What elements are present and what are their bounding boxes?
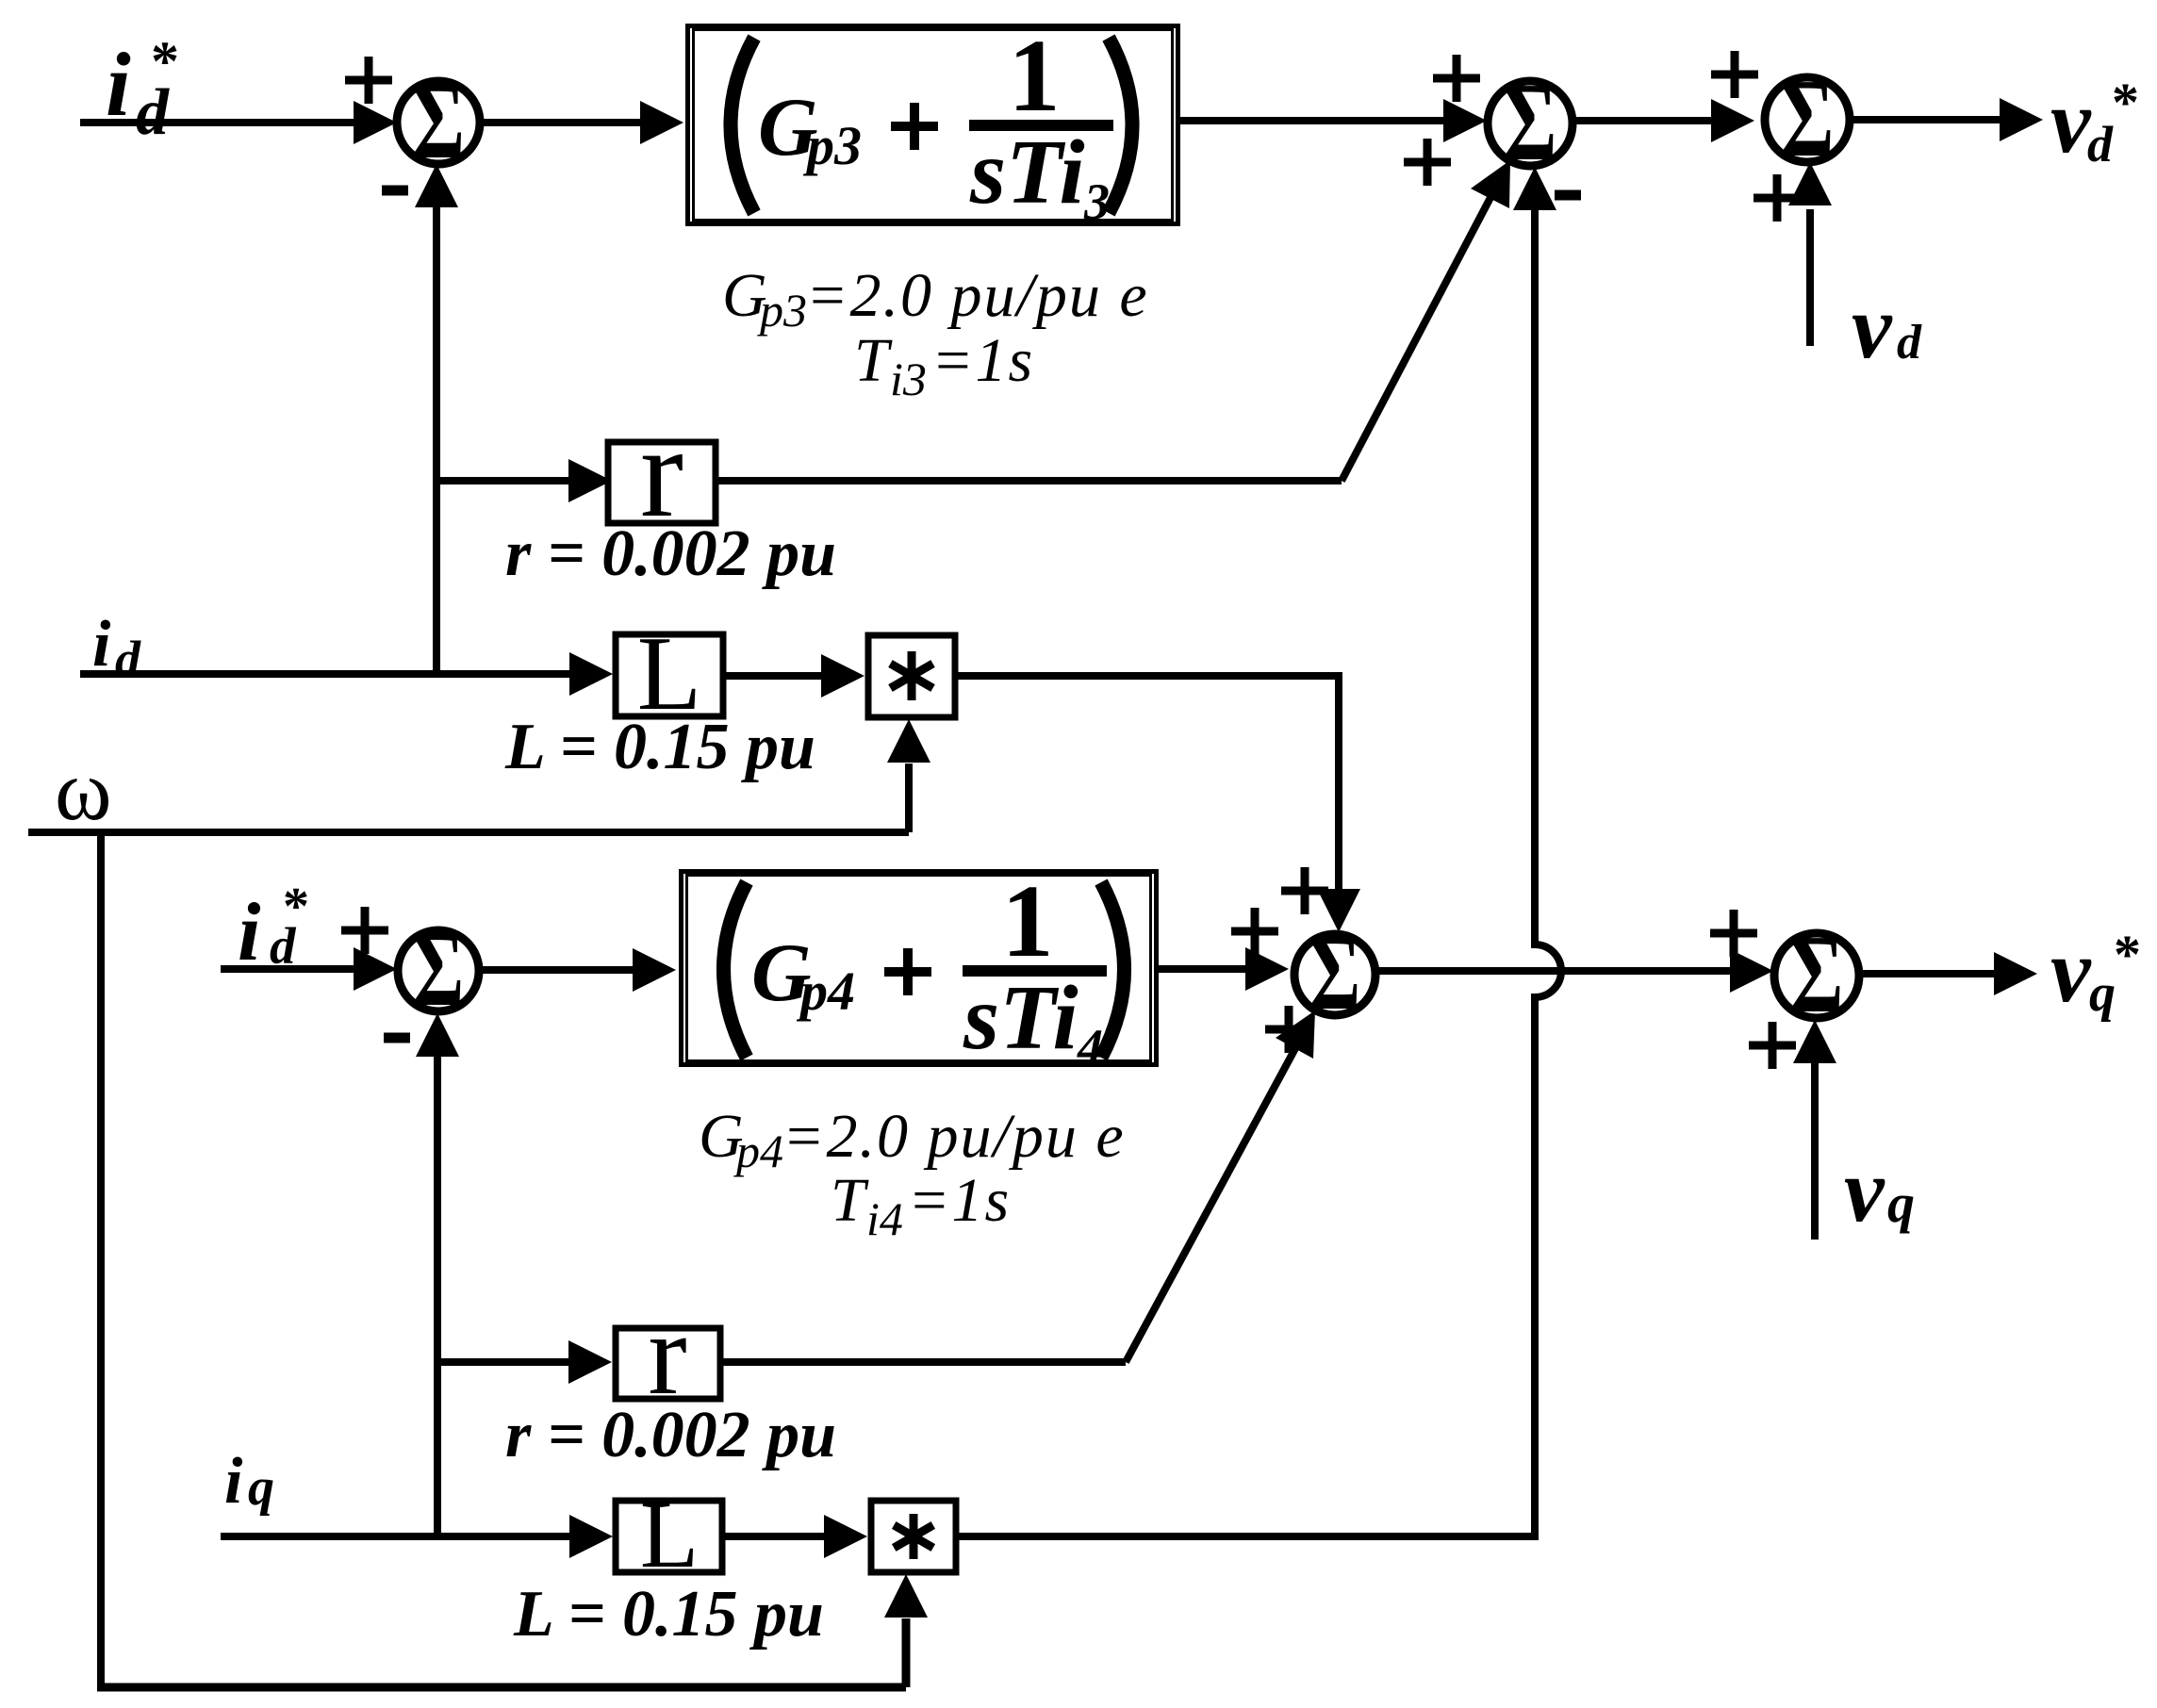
block G3 plus sign	[891, 103, 938, 150]
svg-text:L = 0.15 pu: L = 0.15 pu	[513, 1578, 824, 1651]
plus sign at SJ4 top input	[1281, 867, 1328, 914]
svg-text:=1s: =1s	[908, 1166, 1011, 1235]
plus sign at SJ2 diagonal input	[1404, 139, 1451, 186]
wire SJ3 to vd* output	[1850, 116, 2004, 123]
label Ti4=1s	[831, 1166, 1011, 1245]
block G3 left parenthesis	[731, 38, 754, 213]
node vd input label	[1852, 276, 1922, 377]
svg-text:d: d	[1897, 316, 1922, 370]
arrowhead into SJ1 left	[354, 101, 397, 144]
label Gp3=2.0 pu/pu e	[722, 261, 1149, 337]
wire omega riser to M2	[902, 1618, 911, 1687]
svg-text:v: v	[1844, 1140, 1885, 1240]
block G4 gain symbol Gp4	[751, 928, 855, 1022]
arrowhead into gain L1	[569, 652, 613, 696]
svg-text:v: v	[1852, 276, 1893, 377]
PI block G4 inner frame	[687, 876, 1151, 1061]
minus sign at SJ6 bottom input	[384, 1033, 410, 1043]
summing junction SJ2	[1488, 59, 1572, 185]
wire id input to gain L1	[80, 670, 574, 678]
summing junction SJ4	[1294, 912, 1375, 1032]
wire SJ2 to SJ3	[1572, 117, 1716, 124]
summing junction SJ1	[397, 60, 480, 182]
arrowhead vd into SJ3 bottom	[1788, 162, 1832, 205]
svg-text:i: i	[238, 887, 261, 978]
multiplier M1 asterisk	[890, 651, 932, 700]
svg-text:T: T	[854, 326, 893, 395]
arrowhead into multiplier M2	[824, 1515, 867, 1558]
arrowhead long vertical into SJ2 bottom	[1513, 167, 1556, 210]
svg-text:v: v	[2050, 920, 2092, 1021]
multiplier block M2	[871, 1501, 956, 1572]
gain block L1	[616, 634, 723, 716]
plus sign at SJ5 left input	[1710, 910, 1757, 957]
arrowhead into SJ5 left	[1730, 949, 1773, 993]
wire M2 output long vertical to SJ2 with hop	[956, 205, 1561, 1536]
svg-text:Σ: Σ	[412, 60, 465, 182]
plus sign at SJ4 left input	[1231, 908, 1278, 955]
svg-text:*: *	[283, 878, 309, 936]
wire feedback vertical into SJ6	[434, 1051, 441, 1536]
gain block r2	[616, 1328, 720, 1399]
arrowhead into block G4	[633, 948, 676, 992]
node iq feedback input label	[224, 1445, 274, 1518]
node id* reference input label (q-axis)	[238, 878, 309, 978]
block G4 denominator sTi4	[963, 967, 1103, 1076]
PI block G3 outer frame	[688, 26, 1178, 224]
wire diagonal r2 to SJ4	[1126, 1040, 1300, 1362]
wire diagonal r1 to SJ2	[1342, 190, 1494, 481]
arrowhead diagonal into SJ2	[1471, 160, 1510, 208]
block G3 right parenthesis	[1109, 38, 1132, 213]
wire omega riser to M1	[905, 764, 913, 832]
plus sign at SJ4 diagonal input	[1265, 1006, 1312, 1053]
svg-text:r = 0.002 pu: r = 0.002 pu	[505, 517, 836, 590]
wire omega bottom run	[97, 1683, 906, 1692]
PI block G3 inner frame	[694, 30, 1173, 221]
block G3 fraction bar	[969, 120, 1113, 131]
wire gain L1 to multiplier M1	[723, 672, 826, 680]
svg-text:1: 1	[1002, 863, 1054, 978]
svg-text:Σ: Σ	[1781, 56, 1835, 181]
summing junction SJ5	[1774, 911, 1859, 1037]
svg-text:r = 0.002 pu: r = 0.002 pu	[505, 1399, 836, 1471]
svg-text:L: L	[640, 1482, 699, 1588]
block G4 fraction bar	[963, 965, 1107, 977]
wire id* input to SJ6	[221, 965, 358, 973]
plus sign at SJ5 bottom input	[1749, 1022, 1796, 1069]
arrowhead into SJ6 left	[354, 947, 397, 991]
svg-text:i: i	[92, 608, 111, 681]
arrowhead diagonal into SJ4	[1276, 1010, 1315, 1059]
gain block r1	[608, 442, 716, 523]
label Ti3=1s	[854, 326, 1034, 405]
svg-text:L = 0.15 pu: L = 0.15 pu	[504, 711, 815, 783]
svg-text:p4: p4	[796, 961, 855, 1022]
svg-text:i: i	[224, 1445, 243, 1518]
block G4 plus sign	[884, 948, 931, 995]
wire block G4 to SJ4	[1159, 965, 1250, 973]
plus sign at SJ2 left input	[1433, 55, 1480, 102]
svg-text:ω: ω	[55, 742, 112, 838]
minus sign at SJ2 bottom input	[1555, 190, 1581, 201]
node id* reference input label (d-axis)	[106, 30, 179, 149]
block G3 gain symbol Gp3	[758, 82, 862, 176]
label Gp4=2.0 pu/pu e	[699, 1102, 1126, 1177]
block G4 left parenthesis	[724, 882, 748, 1058]
multiplier block M1	[868, 635, 955, 717]
svg-text:q: q	[2089, 964, 2116, 1023]
svg-text:p3: p3	[802, 115, 862, 176]
arrowhead omega into M1 bottom	[887, 719, 930, 763]
svg-text:4: 4	[1077, 1019, 1103, 1076]
wire block G3 to SJ2	[1180, 117, 1448, 124]
svg-text:q: q	[248, 1458, 274, 1517]
wire omega horizontal	[28, 829, 909, 836]
arrowhead into multiplier M1	[821, 654, 864, 698]
svg-text:v: v	[2050, 71, 2092, 172]
arrowhead into gain L2	[569, 1515, 613, 1558]
svg-text:=2.0 pu/pu e: =2.0 pu/pu e	[806, 261, 1149, 330]
svg-text:=1s: =1s	[931, 326, 1034, 395]
wire tee to gain r1	[436, 477, 569, 484]
node id feedback input label	[92, 608, 141, 687]
node vq* output label	[2050, 920, 2141, 1023]
svg-text:sTi: sTi	[963, 967, 1078, 1069]
wire gain r1 to corner	[716, 477, 1342, 484]
svg-text:Σ: Σ	[413, 909, 464, 1028]
svg-text:3: 3	[1083, 173, 1110, 230]
arrowhead M1 output into SJ4 top	[1317, 889, 1360, 932]
multiplier M2 asterisk	[894, 1514, 933, 1559]
plus sign at SJ3 left input	[1711, 51, 1758, 98]
wire vd input vertical	[1806, 209, 1814, 346]
wire tee to gain r2	[437, 1358, 573, 1366]
block G4 right parenthesis	[1101, 882, 1125, 1058]
PI block G4 outer frame	[682, 872, 1157, 1065]
arrowhead into SJ1 bottom	[415, 164, 458, 207]
svg-text:d: d	[115, 631, 141, 687]
arrowhead into gain r2	[568, 1340, 612, 1384]
wire gain L2 to multiplier M2	[722, 1533, 829, 1540]
wire SJ6 to block G4	[479, 966, 634, 974]
svg-text:*: *	[151, 30, 179, 92]
block G3 denominator sTi3	[969, 122, 1110, 230]
svg-text:*: *	[2112, 72, 2139, 133]
minus sign at SJ1 bottom input	[382, 186, 408, 196]
summing junction SJ3	[1765, 56, 1850, 181]
plus sign at SJ6 top input	[341, 907, 388, 954]
wire vq input vertical	[1811, 1061, 1819, 1240]
svg-text:sTi: sTi	[969, 122, 1085, 223]
arrowhead into gain r1	[568, 459, 612, 502]
wire SJ1 to block G3	[480, 119, 641, 126]
wire omega vertical drop	[97, 829, 105, 1683]
node vd* output label	[2050, 71, 2139, 172]
svg-text:Σ: Σ	[1790, 911, 1844, 1037]
wire M1 output to SJ4 top	[955, 676, 1339, 893]
arrowhead vq into SJ5 bottom	[1793, 1020, 1836, 1063]
svg-text:=2.0 pu/pu e: =2.0 pu/pu e	[782, 1102, 1126, 1171]
arrowhead into block G3	[640, 101, 683, 144]
svg-text:d: d	[2087, 116, 2114, 172]
plus sign at SJ3 bottom input	[1754, 174, 1801, 222]
arrowhead omega into M2 bottom	[884, 1574, 928, 1618]
svg-text:Σ: Σ	[1504, 59, 1557, 185]
svg-text:i4: i4	[866, 1192, 903, 1245]
plus sign at SJ1 top input	[345, 57, 392, 104]
svg-text:Σ: Σ	[1309, 912, 1360, 1032]
wire SJ5 to vq* output	[1859, 970, 1999, 977]
arrowhead into SJ2 left	[1443, 99, 1487, 142]
node vq input label	[1844, 1140, 1915, 1240]
svg-text:T: T	[831, 1166, 869, 1235]
wire SJ4 to SJ5	[1375, 967, 1735, 975]
summing junction SJ6	[398, 909, 479, 1028]
svg-text:1: 1	[1009, 18, 1061, 133]
wire iq input to gain L2	[221, 1533, 574, 1540]
wire feedback vertical into SJ1	[433, 200, 440, 674]
gain block L2	[616, 1501, 722, 1572]
arrowhead into SJ6 bottom	[416, 1013, 459, 1057]
svg-text:p3: p3	[757, 284, 807, 337]
arrowhead into SJ4 left	[1245, 947, 1289, 991]
wire id* input to SJ1	[80, 119, 358, 126]
arrowhead into SJ3 left	[1711, 99, 1754, 142]
svg-text:q: q	[1887, 1173, 1915, 1234]
svg-text:p4: p4	[733, 1125, 783, 1177]
arrowhead at vd* output	[2000, 98, 2043, 141]
arrowhead at vq* output	[1994, 952, 2037, 995]
wire gain r2 to corner	[720, 1358, 1126, 1366]
svg-text:i3: i3	[890, 353, 927, 405]
svg-text:*: *	[2114, 924, 2141, 985]
